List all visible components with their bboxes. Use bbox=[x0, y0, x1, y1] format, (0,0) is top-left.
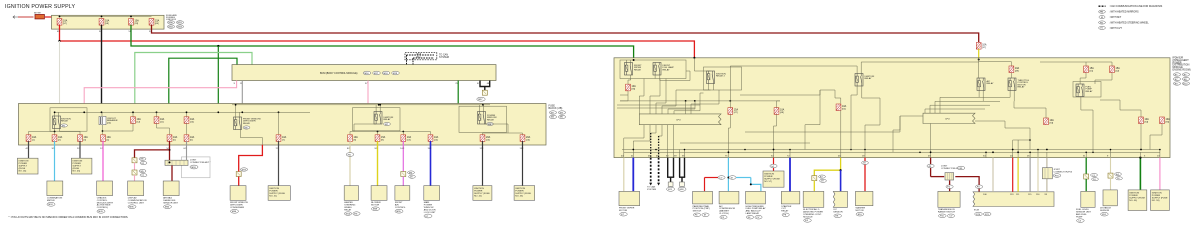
wire gray fuse f to joint connector bbox=[186, 141, 188, 160]
joint connector bar bbox=[165, 160, 188, 165]
svg-text:M: M bbox=[731, 177, 733, 179]
connector square on natural bbox=[1108, 173, 1113, 178]
legend oval HS bbox=[1099, 21, 1106, 24]
ignition relay R3 bbox=[374, 112, 382, 125]
svg-text:CPU: CPU bbox=[945, 119, 950, 121]
CPU bar 2 bbox=[923, 113, 975, 123]
junction red entry bbox=[693, 57, 695, 59]
CPU bar 1 bbox=[639, 114, 721, 125]
svg-text:RELAY: RELAY bbox=[987, 82, 995, 85]
svg-text:[14]: [14] bbox=[434, 139, 438, 141]
svg-text:BLOCK (J/B): BLOCK (J/B) bbox=[549, 107, 563, 110]
svg-text:* : PIN LAYOUTS MAY BE IN NO S: * : PIN LAYOUTS MAY BE IN NO SPECIFIC OR… bbox=[9, 216, 129, 219]
svg-text:SENSOR UNIT: SENSOR UNIT bbox=[163, 202, 179, 204]
wire red to ABS unit bbox=[1012, 158, 1014, 192]
svg-text:ENGINE ROOM): ENGINE ROOM) bbox=[1173, 69, 1191, 72]
svg-text:[11]: [11] bbox=[160, 121, 164, 123]
wire white to ignition relay bbox=[59, 41, 61, 116]
internal loop CB to fuse 103 bbox=[102, 125, 104, 135]
distance sensor bbox=[1103, 190, 1117, 206]
internal loop fuse156 to fuse169 bbox=[157, 123, 170, 134]
svg-text:[52]: [52] bbox=[842, 109, 846, 111]
svg-text:[13]: [13] bbox=[407, 139, 411, 141]
throttle control motor relay R10 bbox=[1008, 78, 1016, 91]
note box ignition power supply fuse 57 bbox=[763, 171, 784, 187]
wire dark red joint connector to air bag unit bbox=[171, 165, 173, 181]
svg-text:11C: 11C bbox=[428, 148, 432, 150]
condition ovals on wire bbox=[705, 177, 719, 179]
internal wires top fuse feeds bbox=[101, 112, 103, 116]
svg-text:NO. 40): NO. 40) bbox=[1129, 200, 1137, 202]
svg-text:[55]: [55] bbox=[1166, 122, 1170, 124]
high pressure pump relay box bbox=[746, 191, 766, 204]
svg-text:[58]: [58] bbox=[105, 23, 109, 25]
IPDM fuse top right a bbox=[1084, 66, 1089, 73]
power window relay sub box bbox=[459, 106, 507, 132]
wire pink BCM to ignition relay 2 bbox=[367, 81, 369, 105]
IPDM fuse 10A mid bbox=[836, 104, 841, 111]
svg-text:[7]: [7] bbox=[282, 139, 285, 141]
ground M57 bbox=[482, 90, 487, 95]
svg-text:M: M bbox=[704, 215, 706, 217]
IPDM internal wires mid bbox=[851, 86, 857, 150]
wire red to washer motor bbox=[864, 158, 866, 192]
svg-text:CONNECTOR-F55: CONNECTOR-F55 bbox=[1054, 171, 1073, 173]
wire red into connector bbox=[931, 176, 945, 178]
svg-text:[2]: [2] bbox=[58, 139, 61, 141]
svg-text:NO. 45): NO. 45) bbox=[73, 171, 81, 173]
bottom fuse 10A b bbox=[52, 135, 57, 142]
wire black ground 2 bbox=[673, 158, 675, 178]
bottom fuse 10A h bbox=[348, 135, 353, 142]
svg-text:RELAY: RELAY bbox=[243, 122, 251, 125]
svg-text:BCM (BODY CONTROL MODULE): BCM (BODY CONTROL MODULE) bbox=[320, 72, 358, 75]
internal wires ignition relay 2 bbox=[375, 105, 377, 112]
svg-text:NO. 59): NO. 59) bbox=[1152, 200, 1160, 202]
svg-text:RELAY 2: RELAY 2 bbox=[716, 75, 726, 78]
wire pink BCM to ignition relay coil bbox=[84, 81, 236, 113]
svg-text:[35]: [35] bbox=[632, 89, 636, 91]
fuel level sensor unit bbox=[1081, 191, 1095, 207]
svg-text:SYSTEM: SYSTEM bbox=[439, 56, 449, 59]
joint connector M07 gray box bbox=[182, 157, 211, 178]
combination meter bbox=[47, 181, 63, 196]
wire red connector to range switch bbox=[949, 180, 951, 191]
svg-text:CONTROL: CONTROL bbox=[395, 207, 406, 209]
wire yellow to blower motor bbox=[377, 141, 379, 186]
front wiper relay R5 bbox=[625, 63, 633, 76]
IPDM fuse top right b bbox=[1110, 66, 1115, 73]
wire black fuse F2 to fuse block bbox=[101, 25, 103, 113]
extra junction dots bottom buses bbox=[930, 151, 932, 153]
bottom fuse row: fuse 10A a bbox=[26, 135, 31, 142]
fuel pump relay R11 bbox=[1073, 82, 1101, 98]
fuse F4 15A bbox=[149, 18, 154, 25]
wire pink to display unit bbox=[134, 175, 136, 181]
svg-text:CONDENSER: CONDENSER bbox=[230, 207, 244, 209]
svg-text:RELAY: RELAY bbox=[663, 68, 671, 71]
wire black ground 3 bbox=[679, 158, 681, 178]
svg-text:[42]: [42] bbox=[1116, 71, 1120, 73]
svg-text:2C: 2C bbox=[77, 148, 80, 150]
svg-text:RELAY: RELAY bbox=[865, 77, 873, 80]
wire red main ignition feed bbox=[60, 25, 695, 58]
bottom fuse 10A j bbox=[401, 135, 406, 142]
internal loop pw relay to fuses bbox=[483, 124, 509, 135]
connector square on green bbox=[1084, 174, 1089, 179]
bottom fuse 10A d bbox=[101, 135, 106, 142]
junction green entry bbox=[633, 59, 635, 61]
wire pink connector to connector bbox=[134, 163, 136, 170]
fuse F1 10A bbox=[57, 18, 62, 25]
svg-text:7C: 7C bbox=[276, 148, 279, 150]
svg-text:CONTROL UNIT: CONTROL UNIT bbox=[128, 202, 145, 204]
svg-text:CV: CV bbox=[756, 217, 760, 219]
ECM box bbox=[973, 192, 1054, 207]
svg-text:CV: CV bbox=[949, 216, 953, 218]
wire natural to front wiper motor bbox=[623, 158, 625, 192]
svg-text:RELAY: RELAY bbox=[634, 68, 642, 71]
svg-text:: WITH HEATED STEERING WHEEL: : WITH HEATED STEERING WHEEL bbox=[1109, 22, 1149, 25]
svg-text:RELAY: RELAY bbox=[1086, 90, 1094, 93]
wire red to condenser bbox=[238, 177, 240, 186]
internal bus 1 bbox=[55, 111, 310, 113]
wire yellow fuse F57 to IPDM bbox=[978, 49, 980, 58]
internal bus 2 bbox=[232, 104, 490, 106]
fuse block J/B bbox=[19, 104, 547, 146]
svg-text:[54]: [54] bbox=[1145, 122, 1149, 124]
note box ignition power supply fuse 45 bbox=[71, 158, 92, 174]
CAN system dashed box bbox=[405, 53, 437, 60]
wire sky blue branch bbox=[751, 178, 761, 192]
svg-text:4C: 4C bbox=[26, 148, 29, 150]
front window defogger condenser bbox=[230, 186, 246, 201]
bottom fuse 20A l bbox=[480, 135, 485, 142]
svg-text:M: M bbox=[1101, 17, 1103, 19]
internal wires relay feeds bbox=[54, 112, 56, 116]
wire red joint connector F09 bbox=[930, 158, 932, 177]
svg-text:RELAY: RELAY bbox=[781, 210, 789, 213]
fuse F3 10A bbox=[129, 18, 134, 25]
front wiper motor bbox=[619, 191, 640, 205]
wire dark green fuse F3 to IPDM bbox=[131, 25, 634, 58]
wire blue to starter relay bbox=[789, 158, 791, 192]
wire gray b to ABS unit bbox=[1046, 158, 1048, 192]
IPDM fuse 15A bbox=[728, 108, 733, 115]
note box ignition power supply fuse 41 bbox=[268, 186, 290, 201]
AC relay R9 bbox=[977, 78, 985, 91]
wire red to fuse note 57 bbox=[773, 158, 775, 171]
black ground bus 2 bbox=[679, 176, 685, 178]
legend oval M bbox=[1099, 16, 1105, 19]
internal loop relay to fuses 28 54 bbox=[29, 129, 55, 135]
wire blue to power window main switch bbox=[430, 141, 432, 186]
svg-text:CV: CV bbox=[1100, 28, 1104, 30]
svg-text:12C: 12C bbox=[480, 148, 484, 150]
IPDM internal relay sub box bbox=[620, 60, 686, 79]
junction red/white bbox=[58, 40, 60, 42]
IPDM fuse mid right a bbox=[1044, 118, 1049, 125]
wire green thick to fuse note 40 bbox=[1139, 158, 1141, 190]
IPDM internal wires left bbox=[626, 60, 628, 63]
front window defogger relay R2 bbox=[234, 117, 242, 130]
fuse box connector ovals bbox=[167, 21, 174, 24]
circuit breaker CB bbox=[99, 116, 106, 124]
svg-text:LOCK UNIT: LOCK UNIT bbox=[424, 212, 436, 214]
svg-text:HM: HM bbox=[1100, 12, 1104, 14]
wire white to ECM bbox=[992, 158, 994, 192]
svg-text:SENSOR: SENSOR bbox=[833, 212, 843, 214]
wire sky blue from IPDM bbox=[727, 158, 729, 192]
wire blue to front wiper motor bbox=[632, 158, 634, 192]
svg-text:: WITH HEATED MIRRORS: : WITH HEATED MIRRORS bbox=[1109, 11, 1139, 14]
fuse F57 10A on dark red bbox=[976, 42, 981, 49]
wire sky blue to combination meter bbox=[54, 141, 56, 181]
fuse block top fuse 10A c bbox=[184, 117, 189, 124]
svg-text:RELAY: RELAY bbox=[61, 120, 69, 123]
wire gray fuse m to note 43 bbox=[522, 141, 524, 186]
wire green to fuel pump bbox=[1085, 158, 1087, 174]
connector square on violet bbox=[401, 172, 406, 177]
wire gray to fuse note 45 bbox=[79, 141, 81, 158]
bottom fuse 10A c bbox=[78, 135, 83, 142]
IPDM fuse 10A 49 bbox=[1009, 66, 1014, 73]
wire yellow to EPS module bbox=[814, 158, 840, 176]
fuse block top fuse 10A bbox=[131, 117, 136, 124]
ground E21 bbox=[667, 182, 675, 191]
internal defogger relay output bbox=[240, 130, 262, 145]
svg-text:RANGE SWITCH: RANGE SWITCH bbox=[938, 211, 955, 214]
ICC sensor box bbox=[833, 191, 847, 207]
black ground bus 1 bbox=[667, 176, 674, 178]
svg-text:[5]: [5] bbox=[173, 139, 176, 141]
wire dark red fuse e branch bbox=[169, 141, 171, 162]
svg-text:SYSTEM: SYSTEM bbox=[647, 189, 656, 191]
oval on washer red bbox=[862, 161, 869, 164]
legend oval HM bbox=[1099, 10, 1106, 13]
svg-text:[16]: [16] bbox=[526, 139, 530, 141]
svg-text:: WITH M/T: : WITH M/T bbox=[1109, 16, 1122, 19]
note box ignition power supply fuse 42 bbox=[473, 186, 492, 201]
svg-text:[60]: [60] bbox=[155, 23, 159, 25]
bottom fuse 10A i bbox=[375, 135, 380, 142]
svg-text:RELAY: RELAY bbox=[487, 118, 495, 121]
push-button ignition switch bbox=[693, 191, 713, 204]
BCM connector ovals bbox=[363, 71, 371, 75]
IPDM internal extra mesh bbox=[617, 104, 700, 106]
ignition relay sub box IPDM bbox=[704, 67, 742, 90]
svg-text:[59]: [59] bbox=[135, 23, 139, 25]
wire yellow to ABS unit bbox=[1017, 158, 1019, 192]
svg-text:METER: METER bbox=[47, 200, 55, 202]
internal wires defogger relay bbox=[235, 105, 237, 117]
svg-text:HS: HS bbox=[1100, 22, 1104, 24]
internal loop fuse133 to fuse103 bbox=[103, 123, 134, 131]
note box ignition power supply fuse 59 bbox=[1151, 190, 1170, 211]
svg-text:[48]: [48] bbox=[780, 112, 784, 114]
svg-text:: WITH CVT: : WITH CVT bbox=[1109, 27, 1122, 30]
headlamp relay R6 bbox=[653, 63, 661, 76]
air bag diagnosis sensor unit bbox=[163, 181, 179, 196]
wire CAN dashed L bbox=[658, 158, 660, 183]
IPDM E/R block bbox=[614, 58, 1170, 158]
CAN dashed lines bbox=[407, 54, 435, 56]
svg-text:HS: HS bbox=[348, 154, 352, 156]
joint connector F55 bbox=[1042, 168, 1052, 179]
wire natural to distance sensor bbox=[1110, 158, 1112, 174]
IPDM fuse mid right c bbox=[1160, 117, 1165, 124]
wire natural to heated steering relay bbox=[349, 141, 351, 186]
svg-text:NO. 43): NO. 43) bbox=[515, 196, 523, 198]
svg-text:CV: CV bbox=[719, 177, 723, 179]
IPDM fuse mid right b bbox=[1139, 117, 1144, 124]
svg-text:CLUTCH): CLUTCH) bbox=[719, 213, 729, 215]
wire red connector to ECM bbox=[955, 177, 979, 192]
svg-text:MOTOR: MOTOR bbox=[619, 210, 628, 212]
fuse block ovals bbox=[549, 111, 556, 114]
svg-text:5C: 5C bbox=[167, 148, 170, 150]
wire dark green branch to fuse block bbox=[217, 46, 219, 104]
svg-text:NO. 41): NO. 41) bbox=[269, 196, 277, 198]
junction dark green branch bbox=[217, 45, 219, 47]
note box ignition power supply fuse 46 bbox=[17, 158, 38, 174]
washer motor box bbox=[856, 191, 873, 205]
wire battery to fuse box bbox=[45, 16, 52, 18]
connector square on red bbox=[236, 172, 241, 177]
ignition relay R1 bbox=[53, 116, 61, 129]
wire black ground 1 bbox=[667, 158, 669, 178]
svg-text:SENSOR: SENSOR bbox=[1100, 210, 1110, 212]
svg-text:[3]: [3] bbox=[84, 139, 87, 141]
wire red defogger relay to condenser bbox=[239, 145, 263, 168]
wire black ground 4 bbox=[684, 158, 686, 178]
wire natural to ABS unit bbox=[1037, 158, 1039, 192]
svg-text:8C: 8C bbox=[347, 148, 350, 150]
svg-text:6C: 6C bbox=[184, 148, 187, 150]
fuse F2 10A bbox=[99, 18, 104, 25]
svg-text:[57]: [57] bbox=[982, 47, 986, 49]
svg-text:1C: 1C bbox=[100, 148, 103, 150]
wire gray to fuse note 46 bbox=[28, 141, 30, 158]
svg-text:MOTOR: MOTOR bbox=[371, 205, 380, 207]
condition oval HS on wire bbox=[346, 153, 354, 157]
svg-text:9C: 9C bbox=[375, 148, 378, 150]
svg-text:[1]: [1] bbox=[32, 139, 35, 141]
svg-text:RELAY: RELAY bbox=[1018, 86, 1026, 89]
wire red to push button switch bbox=[704, 178, 706, 192]
svg-text:[8]: [8] bbox=[354, 139, 357, 141]
svg-text:CPU: CPU bbox=[676, 120, 681, 122]
internal wires power window relay bbox=[479, 105, 481, 112]
svg-text:MOTOR: MOTOR bbox=[856, 210, 865, 212]
wire pink to fuse note 59 bbox=[1159, 158, 1161, 190]
svg-text:10C: 10C bbox=[400, 148, 404, 150]
svg-text:[6]: [6] bbox=[190, 139, 193, 141]
svg-text:[12]: [12] bbox=[137, 121, 141, 123]
svg-text:RELAY: RELAY bbox=[344, 208, 352, 211]
svg-text:[10]: [10] bbox=[190, 121, 194, 123]
svg-text:LAMP RELAY: LAMP RELAY bbox=[746, 212, 760, 215]
svg-text:NO. 42): NO. 42) bbox=[474, 196, 482, 198]
svg-text:[47]: [47] bbox=[734, 112, 738, 114]
note box ignition power supply fuse 43 bbox=[514, 186, 535, 201]
svg-text:13C: 13C bbox=[520, 148, 524, 150]
IPDM internal wires right bbox=[893, 116, 923, 152]
joint connector F09 box bbox=[945, 173, 954, 180]
wire CAN dashed H bbox=[650, 158, 652, 183]
wire dark red fuse F4 feed bbox=[152, 25, 979, 42]
svg-text:IGNITION POWER SUPPLY: IGNITION POWER SUPPLY bbox=[5, 4, 75, 10]
svg-text:SWITCH: SWITCH bbox=[693, 211, 702, 213]
bottom fuse 20A m bbox=[520, 135, 525, 142]
bottom fuse 10A e bbox=[167, 135, 172, 142]
wire dark green fuse block to BCM bbox=[169, 58, 237, 103]
svg-text:NO. 57): NO. 57) bbox=[764, 181, 772, 183]
IPDM internal drops to bottom pins bbox=[624, 125, 644, 158]
ignition relay R7 bbox=[707, 71, 715, 84]
IPDM fuse 10A c bbox=[774, 108, 779, 115]
battery feed arrow bbox=[13, 16, 18, 19]
connector square on yellow bbox=[812, 176, 817, 181]
ignition relay sub box bbox=[50, 108, 87, 131]
svg-text:PUMP: PUMP bbox=[1076, 216, 1083, 218]
svg-text:[41]: [41] bbox=[1090, 71, 1094, 73]
power window main switch bbox=[424, 186, 440, 201]
svg-text:[49]: [49] bbox=[1015, 71, 1019, 73]
BCM body control module bar bbox=[232, 65, 496, 81]
transmission range switch bbox=[938, 191, 960, 207]
legend oval CV bbox=[1099, 26, 1106, 29]
svg-text:[57]: [57] bbox=[63, 23, 67, 25]
wire gray fuse l to note 42 bbox=[482, 141, 484, 186]
EPS control module bbox=[803, 191, 824, 207]
svg-text:CONTROL): CONTROL) bbox=[97, 207, 109, 209]
svg-text:ECM: ECM bbox=[974, 209, 979, 211]
svg-text:NO. 46): NO. 46) bbox=[19, 171, 27, 173]
bottom fuse 10A f bbox=[184, 135, 189, 142]
svg-text:[53]: [53] bbox=[1050, 123, 1054, 125]
wire violet to front air control bbox=[402, 141, 404, 172]
IPDM internal bus lines bbox=[620, 100, 780, 102]
ignition relay 3 R8 bbox=[855, 74, 863, 87]
legend dash sample bbox=[1099, 5, 1106, 7]
note box ignition power supply fuse 40 bbox=[1128, 190, 1147, 211]
wire light green fuse block to BCM bbox=[135, 53, 252, 104]
connector oval on red bbox=[240, 168, 247, 171]
svg-text:: CAN COMMUNICATION LINE FOR D: : CAN COMMUNICATION LINE FOR DIAGNOSIS bbox=[1109, 5, 1163, 8]
svg-text:RELAY: RELAY bbox=[384, 118, 392, 121]
bottom fuse 10A g bbox=[276, 135, 281, 142]
IPDM fuse 10A left bbox=[626, 84, 631, 91]
svg-text:MODULE: MODULE bbox=[803, 216, 813, 218]
fuse and fusible link box bbox=[52, 15, 165, 29]
bottom fuse 10A k bbox=[428, 135, 433, 142]
svg-text:CONNECTOR-M07 *: CONNECTOR-M07 * bbox=[190, 162, 211, 164]
A/C compressor bbox=[719, 191, 739, 204]
wire gray fuse g to note 41 bbox=[278, 141, 280, 186]
starter cut relay box bbox=[781, 192, 800, 204]
IPDM ovals bbox=[1173, 73, 1180, 76]
wire gray to ABS unit bbox=[1029, 158, 1031, 192]
wire blue to ICC sensor bbox=[840, 170, 842, 191]
wire black BCM grounds bbox=[480, 81, 490, 87]
heated steering wheel relay bbox=[344, 186, 358, 201]
wire green BCM to power window relay bbox=[457, 81, 459, 105]
svg-text:[4]: [4] bbox=[107, 139, 110, 141]
fuse block top fuse 10A b bbox=[154, 117, 159, 124]
svg-text:[15]: [15] bbox=[486, 139, 490, 141]
wire gray BCM to fuse block bbox=[241, 81, 243, 113]
